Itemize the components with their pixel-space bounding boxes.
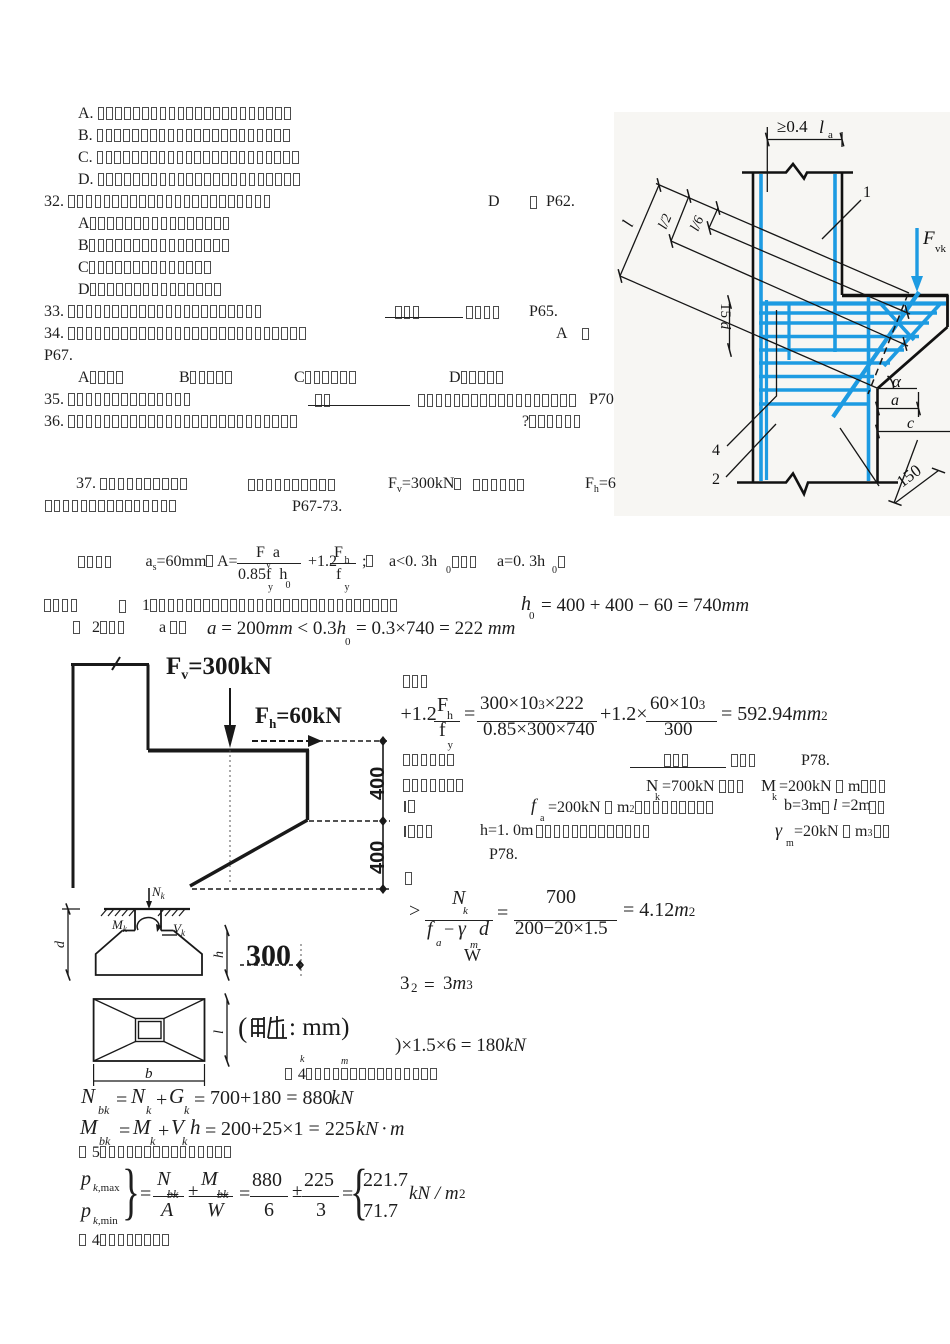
witness line B bbox=[671, 241, 908, 346]
corbel sketch: notch vertical bbox=[147, 665, 150, 751]
stirrup leg short bbox=[787, 303, 790, 360]
svg-text:Nk: Nk bbox=[151, 884, 166, 901]
lower column right edge bbox=[876, 389, 879, 483]
question 33 bbox=[44, 304, 264, 320]
leader 4 polyline bbox=[727, 310, 777, 446]
b dimension bbox=[94, 1080, 205, 1082]
question 37 line 1 bbox=[76, 476, 189, 492]
unit char 2 bbox=[268, 1016, 287, 1038]
dim line l/6 bbox=[709, 208, 718, 228]
solution line (2) bbox=[73, 620, 82, 636]
pier left bbox=[134, 909, 136, 931]
corbel sketch: left column line bbox=[72, 663, 75, 888]
Fh arrow dashed shaft bbox=[252, 740, 309, 742]
svg-text:300: 300 bbox=[246, 939, 291, 972]
horizontal stirrup 6 bbox=[759, 375, 874, 378]
three boxes bbox=[403, 674, 430, 690]
horizontal stirrup 2 bbox=[759, 321, 929, 324]
pier right bbox=[160, 909, 162, 931]
bent bar diagonal bbox=[833, 292, 919, 417]
corbel sketch: ledge horizontal bbox=[148, 749, 309, 753]
column top break line bbox=[742, 164, 853, 179]
corbel sketch: right vertical bbox=[306, 750, 309, 820]
svg-text:l/6: l/6 bbox=[688, 214, 708, 233]
corbel reinforcement diagram (blue) bbox=[600, 108, 950, 520]
leader 1 bbox=[822, 200, 861, 239]
corbel outer face bbox=[946, 295, 949, 327]
corbel sketch: sloped soffit bbox=[190, 820, 308, 886]
short bent segment bbox=[881, 304, 914, 340]
svg-text:F: F bbox=[922, 228, 935, 249]
leader 2 bbox=[726, 424, 776, 477]
=3m3 fragment row bbox=[400, 974, 410, 993]
small boxes row step4 bbox=[285, 1067, 439, 1083]
option line A bbox=[78, 106, 293, 122]
question 35 bbox=[44, 392, 192, 408]
option line D bbox=[78, 172, 302, 188]
witness line C bbox=[709, 228, 910, 314]
boxes row step4b bbox=[79, 1233, 171, 1249]
Fvk load arrow bbox=[915, 228, 918, 278]
boxes row with underline, P78 bbox=[403, 753, 456, 769]
Mk moment arc bbox=[137, 918, 159, 930]
horizontal stirrup 8 bbox=[759, 402, 868, 405]
svg-text:b: b bbox=[145, 1066, 153, 1082]
corbel top face bbox=[842, 294, 949, 298]
plan inner rect 2 bbox=[139, 1022, 162, 1039]
horizontal stirrup 5 bbox=[759, 361, 890, 364]
400 dim chain vertical bbox=[382, 741, 384, 889]
Fh arrowhead bbox=[308, 735, 322, 747]
Nk arrow bbox=[148, 888, 150, 903]
alpha angle arc bbox=[888, 376, 894, 389]
slope parallel bar bbox=[884, 303, 941, 366]
svg-text:Fh=60kN: Fh=60kN bbox=[255, 703, 342, 731]
P67 line bbox=[44, 348, 73, 364]
svg-text:a: a bbox=[891, 392, 899, 409]
Fv centerline dotted bbox=[229, 750, 231, 885]
boxes row step5 bbox=[79, 1145, 233, 1161]
k m subscript fragments bbox=[300, 1055, 304, 1065]
svg-text:400: 400 bbox=[367, 767, 389, 800]
svg-text:15 d: 15 d bbox=[717, 303, 733, 330]
150 dimension bbox=[840, 428, 879, 486]
dim line l bbox=[620, 185, 659, 276]
area check formula > Nk/(fa-gamma d) bbox=[409, 901, 420, 921]
fa=200kN/m2 b=3m l=2m row bbox=[404, 801, 406, 812]
svg-text:(: ( bbox=[238, 1013, 247, 1044]
svg-text:vk: vk bbox=[935, 243, 947, 255]
svg-text:l: l bbox=[618, 218, 637, 230]
svg-text:150: 150 bbox=[893, 461, 925, 492]
column left edge bbox=[752, 173, 755, 483]
h=1.0m row bbox=[404, 826, 406, 837]
svg-text:≥0.4: ≥0.4 bbox=[777, 117, 808, 136]
h0 = 400+400-60 = 740mm bbox=[521, 594, 531, 614]
horizontal stirrup 3 bbox=[759, 335, 919, 338]
question 37 line 2 bbox=[45, 498, 178, 514]
ground hatches bbox=[101, 909, 107, 916]
dim extension dashed mid bbox=[309, 820, 390, 822]
svg-text:Mk: Mk bbox=[111, 917, 128, 934]
diagram scan background tint bbox=[614, 112, 950, 516]
q32 options bbox=[78, 216, 232, 232]
Nk=700kN Mk=200kN m row bbox=[403, 778, 465, 794]
corbel sloped soffit bbox=[878, 327, 948, 389]
dim extension dashed top bbox=[310, 740, 390, 742]
Fv load arrow shaft bbox=[229, 688, 231, 727]
column rebar right (15d anchorage) bbox=[833, 174, 837, 352]
question 36 bbox=[44, 414, 299, 430]
svg-text:: mm): : mm) bbox=[289, 1014, 349, 1041]
Vk arrow bbox=[162, 934, 177, 936]
Nbk = Nk + Gk = 700+180 = 880kN bbox=[81, 1086, 95, 1107]
horizontal stirrup 1 bbox=[759, 311, 937, 314]
svg-text:a: a bbox=[828, 129, 833, 141]
horizontal stirrup 4 bbox=[759, 348, 904, 351]
svg-text:2: 2 bbox=[712, 471, 720, 488]
fraction Fh/fy bbox=[330, 563, 356, 564]
h dimension bbox=[226, 931, 228, 976]
horizontal stirrup 7 bbox=[759, 388, 871, 391]
svg-text:l/2: l/2 bbox=[656, 212, 676, 231]
svg-text:400: 400 bbox=[367, 841, 389, 874]
ground line bbox=[104, 908, 190, 910]
single box bbox=[405, 871, 414, 887]
column bottom break line bbox=[737, 474, 898, 495]
corbel vertical bar into column bbox=[867, 297, 871, 481]
svg-text:l: l bbox=[212, 1030, 227, 1034]
fraction Fv a / 0.85 fy h0 bbox=[237, 563, 301, 564]
15d dimension bbox=[729, 302, 731, 350]
q34 options bbox=[78, 370, 125, 386]
tick on top line bbox=[112, 657, 120, 670]
svg-text:Fv=300kN: Fv=300kN bbox=[166, 653, 272, 683]
witness line D bbox=[620, 276, 877, 388]
footing profile bbox=[96, 931, 202, 976]
)x1.5x6=180kN row bbox=[395, 1036, 526, 1055]
column right edge upper bbox=[841, 173, 844, 296]
pk,max/pk,min formula bbox=[81, 1169, 91, 1189]
svg-text:c: c bbox=[907, 415, 914, 432]
option line C bbox=[78, 150, 301, 166]
plan inner rect bbox=[136, 1019, 165, 1042]
dim line l/2 bbox=[671, 196, 689, 241]
option line B bbox=[78, 128, 292, 144]
svg-text:d: d bbox=[53, 940, 68, 948]
svg-text:4: 4 bbox=[712, 442, 720, 459]
question 32 bbox=[44, 194, 272, 210]
dim diamonds bbox=[379, 736, 387, 746]
plan outer rect bbox=[94, 999, 205, 1061]
unit char 1 bbox=[252, 1017, 264, 1038]
P78 row 2 bbox=[489, 847, 518, 863]
d dimension bbox=[67, 909, 69, 975]
solution line (1) bbox=[44, 598, 80, 614]
300 dim dashes bbox=[240, 964, 298, 966]
column rebar left bbox=[759, 174, 763, 481]
horizontal ref line at corbel corner bbox=[878, 388, 918, 390]
svg-text:h: h bbox=[212, 951, 227, 958]
main top bar bbox=[762, 301, 946, 305]
dashed crack line bbox=[868, 294, 908, 394]
Mbk = Mk + Vk h = 200+25x1=225kN.m bbox=[80, 1117, 98, 1138]
witness line A bbox=[656, 184, 909, 294]
big formula line: +1.2 Fh/fy = ... = 592.94mm2 bbox=[401, 704, 437, 724]
dim ticks bbox=[657, 178, 661, 192]
given data line: as=60mm bbox=[78, 555, 114, 571]
Fv arrowhead bbox=[224, 725, 236, 748]
plan diagonals bbox=[94, 999, 136, 1019]
svg-text:l: l bbox=[819, 117, 824, 137]
corbel sketch: top line bbox=[71, 663, 149, 666]
question 34 bbox=[44, 326, 308, 342]
scanned problem sketches (black) bbox=[40, 645, 400, 1095]
l dimension bbox=[226, 999, 228, 1061]
top dimension >=0.4la bbox=[767, 139, 842, 141]
dim extension dashed bottom bbox=[192, 888, 390, 890]
stirrup leg left bbox=[765, 300, 768, 480]
svg-text:1: 1 bbox=[863, 184, 871, 201]
